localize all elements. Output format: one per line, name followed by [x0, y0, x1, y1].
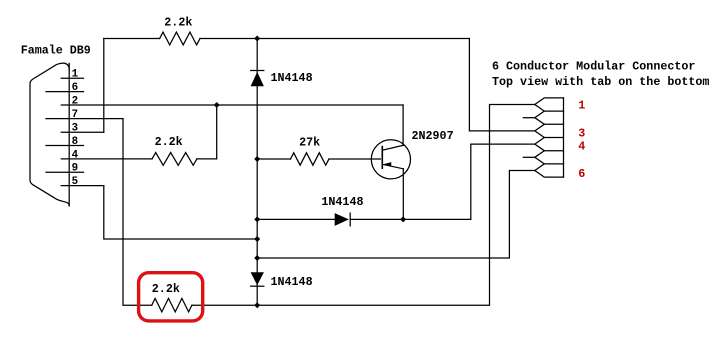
- wire main bus to modular pin 6: [257, 171, 535, 259]
- svg-text:7: 7: [72, 109, 78, 121]
- svg-text:1N4148: 1N4148: [271, 275, 313, 289]
- wire top rail left segment: [104, 38, 160, 40]
- red highlight box around bottom 2.2k resistor: [139, 273, 203, 321]
- svg-text:1: 1: [72, 69, 79, 81]
- wire middle rail up to modular pin 4: [471, 144, 535, 219]
- svg-text:2.2k: 2.2k: [152, 282, 180, 296]
- DB9 pin 3: [61, 123, 104, 135]
- svg-text:2N2907: 2N2907: [412, 129, 454, 143]
- svg-text:2.2k: 2.2k: [164, 15, 192, 29]
- wire DB9 pin7 down to bottom rail: [123, 119, 152, 306]
- DB9 pin 9: [46, 163, 84, 175]
- resistor R3 27k: [257, 136, 329, 166]
- wire R2 to pin2 rail: [197, 105, 217, 159]
- svg-text:27k: 27k: [299, 136, 320, 150]
- wire top rail down to modular pin 3: [469, 39, 534, 131]
- svg-text:3: 3: [72, 123, 78, 135]
- DB9 pin 2 + wire to transistor column: [61, 95, 403, 107]
- wire middle rail left of diode: [257, 218, 335, 220]
- svg-text:4: 4: [578, 139, 585, 153]
- junction middle rail / main bus: [254, 216, 260, 222]
- DB9 pin 7: [46, 109, 123, 121]
- resistor R1 2.2k (top): [160, 15, 200, 45]
- diode D3 1N4148 (bottom, cathode down): [251, 272, 313, 289]
- wire pin3 up to top rail: [103, 39, 105, 133]
- wire DB9 pin5 to main bus: [104, 186, 257, 239]
- modular connector title: [492, 59, 709, 89]
- transistor Q1 2N2907 (PNP): [371, 129, 453, 179]
- DB9 pin 8: [46, 136, 84, 148]
- DB9 pin 5 lead: [61, 176, 104, 188]
- junction 27k / main bus: [254, 156, 260, 162]
- svg-text:8: 8: [72, 136, 78, 148]
- svg-text:6 Conductor Modular Connector: 6 Conductor Modular Connector: [492, 59, 695, 73]
- svg-text:1: 1: [578, 99, 585, 113]
- svg-text:Top view with tab on the botto: Top view with tab on the bottom: [492, 75, 709, 89]
- DB9 connector J1 body: [30, 63, 69, 206]
- modular pin 5 stub: [523, 156, 535, 158]
- svg-text:9: 9: [72, 163, 78, 175]
- wire middle rail right of diode: [350, 218, 471, 220]
- svg-text:2.2k: 2.2k: [155, 135, 183, 149]
- wire collector up to pin2 rail: [402, 105, 404, 145]
- modular connector J2 comb body: [535, 98, 564, 177]
- DB9 pin 6: [46, 82, 84, 94]
- svg-text:2: 2: [72, 95, 78, 107]
- svg-text:5: 5: [72, 176, 78, 188]
- svg-text:4: 4: [72, 149, 79, 161]
- junction node on top rail: [254, 36, 260, 42]
- junction bottom rail / main bus: [254, 302, 260, 308]
- svg-text:Famale DB9: Famale DB9: [21, 44, 91, 58]
- wire 27k to base: [329, 158, 380, 160]
- junction pin2 rail / R2 branch: [214, 102, 220, 108]
- DB9 pin 1: [61, 69, 83, 81]
- wire bottom rail to modular pin 1: [192, 105, 535, 306]
- diode D1 1N4148 (top, cathode up): [251, 71, 313, 87]
- junction pin5 wire / main bus: [254, 236, 260, 242]
- resistor R2 2.2k (middle): [152, 135, 197, 165]
- modular pin 2 stub: [523, 117, 535, 119]
- svg-text:1N4148: 1N4148: [321, 195, 363, 209]
- wire top rail right segment: [200, 38, 469, 40]
- wire emitter down to diode rail: [402, 169, 404, 220]
- svg-text:1N4148: 1N4148: [271, 71, 313, 85]
- DB9 pin 4 lead to resistor R2: [61, 149, 152, 161]
- svg-text:6: 6: [578, 167, 585, 181]
- junction pin6 wire / main bus: [254, 255, 260, 261]
- resistor R4 2.2k (bottom): [152, 282, 192, 312]
- svg-text:6: 6: [72, 82, 78, 94]
- diode D2 1N4148 (middle, cathode right): [321, 195, 363, 226]
- junction emitter / middle rail: [400, 216, 406, 222]
- main vertical bus: [256, 39, 258, 306]
